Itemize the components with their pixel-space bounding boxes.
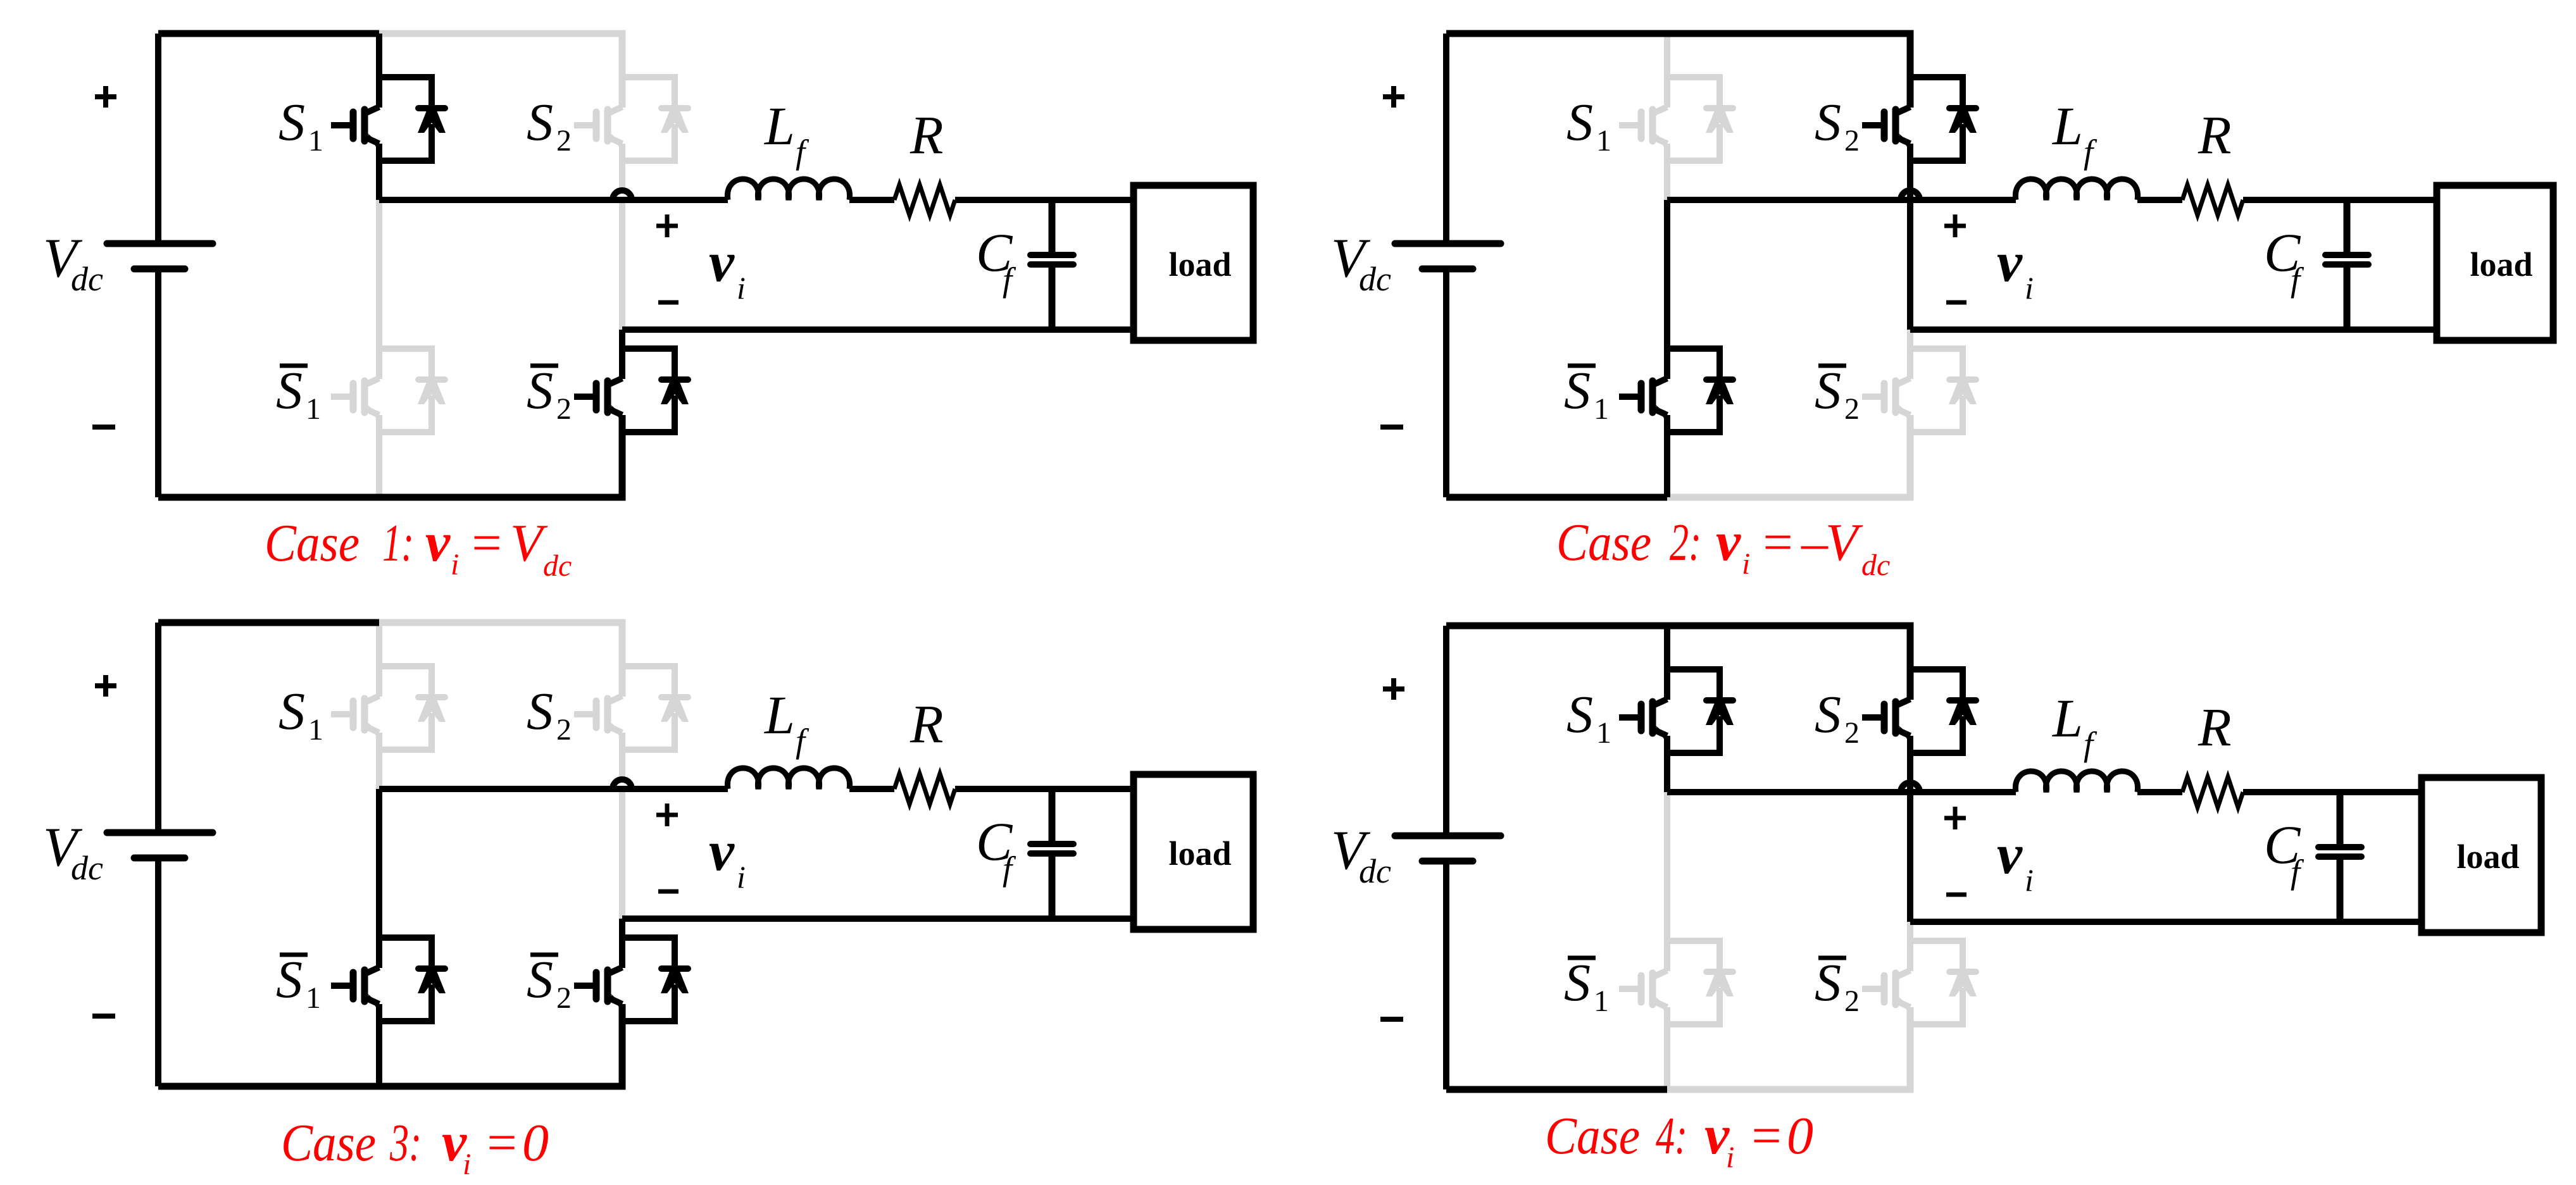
- wire: S2bar collector leg from node B: [1907, 330, 1913, 379]
- wire: S2bar emitter leg + bottom rail right segment: [1667, 415, 1910, 497]
- svg-text:i: i: [737, 270, 746, 306]
- diode (antiparallel of S1 case2): [1667, 77, 1734, 161]
- label + (vi positive): [656, 803, 678, 826]
- svg-text:S: S: [276, 361, 303, 420]
- wire: S2 emitter leg down to output node B: [1907, 736, 1913, 922]
- svg-text:load: load: [2470, 245, 2532, 283]
- transistor S1bar case1 (IGBT): [331, 378, 381, 418]
- wire hop (crossover): [1901, 190, 1920, 200]
- svg-text:i: i: [2025, 270, 2034, 306]
- svg-text:–: –: [1801, 513, 1829, 572]
- diode (antiparallel of S1 case4): [1667, 669, 1734, 753]
- svg-text:1: 1: [308, 124, 323, 158]
- circuit: Case 2 (top-right): [1331, 34, 2553, 497]
- wire: S1bar collector leg from node A: [1664, 792, 1670, 971]
- diode (antiparallel of S1bar case4): [1667, 941, 1734, 1024]
- wire: S1 emitter leg to output node A: [1664, 736, 1670, 792]
- wire: S2 emitter leg down to output node B: [619, 733, 625, 919]
- svg-text:S: S: [278, 93, 305, 152]
- svg-text:S: S: [1566, 685, 1593, 744]
- svg-text:S: S: [1815, 953, 1841, 1012]
- transistor S1 case4 (IGBT): [1619, 699, 1669, 739]
- svg-text:R: R: [910, 693, 944, 754]
- transistor S2bar case1 (IGBT): [574, 378, 624, 418]
- wire: S1 collector leg: [1664, 34, 1670, 108]
- svg-text:L: L: [2051, 688, 2083, 748]
- wire: top rail right segment + S2 collector leg: [379, 34, 622, 108]
- capacitor Cf: [1030, 789, 1073, 919]
- svg-text:S: S: [1564, 361, 1591, 420]
- caption Case 3: [281, 1112, 549, 1181]
- svg-text:R: R: [910, 104, 944, 165]
- label - (vi negative): [1946, 301, 1966, 305]
- load box: [2422, 778, 2541, 933]
- transistor S1 case2 (IGBT): [1619, 107, 1669, 147]
- svg-text:=: =: [468, 514, 504, 573]
- transistor S1 case1 (IGBT): [331, 107, 381, 147]
- svg-text:Case: Case: [281, 1114, 376, 1172]
- svg-text:i: i: [451, 548, 459, 581]
- label S2: [1815, 93, 1860, 158]
- wire: inductor to resistor: [849, 197, 894, 203]
- svg-text:dc: dc: [1359, 852, 1391, 890]
- inductor Lf: [2015, 771, 2137, 792]
- wire: resistor to load: [955, 197, 1134, 203]
- wire: top rail left segment: [158, 30, 379, 37]
- label vi: [1997, 231, 2034, 306]
- svg-text:f: f: [2084, 133, 2098, 171]
- circuit: Case 4 (bottom-right): [1331, 626, 2541, 1089]
- wire: top rail right segment + S2 collector leg: [379, 623, 622, 697]
- label Lf: [2051, 96, 2098, 171]
- wire: top rail left segment: [158, 619, 379, 626]
- wire: output node B to load (bottom): [1910, 326, 2437, 333]
- wire: S1 emitter leg to output node A: [376, 144, 382, 200]
- svg-text:f: f: [2084, 725, 2098, 763]
- svg-text:dc: dc: [1861, 549, 1890, 582]
- wire: S2bar emitter leg + bottom rail right segment: [379, 1004, 622, 1086]
- svg-text:v: v: [1997, 231, 2023, 294]
- label - (battery negative): [92, 425, 115, 430]
- wire: S1bar emitter leg to bottom rail: [1664, 1007, 1670, 1089]
- svg-text:i: i: [1726, 1141, 1734, 1174]
- svg-text:Case: Case: [265, 514, 360, 573]
- label + (battery positive): [1383, 678, 1404, 700]
- load box: [1134, 774, 1253, 929]
- svg-text:S: S: [527, 682, 553, 741]
- svg-text:i: i: [737, 859, 746, 895]
- svg-text:1: 1: [1594, 984, 1609, 1018]
- wire: top rail left segment: [1446, 30, 1667, 37]
- svg-text:=: =: [1748, 1107, 1784, 1165]
- circuit: Case 3 (bottom-left): [43, 623, 1253, 1086]
- label S̄1: [276, 950, 321, 1015]
- wire: S1bar emitter leg to bottom rail: [376, 1004, 382, 1086]
- label - (battery negative): [1380, 1017, 1403, 1022]
- svg-text:V: V: [510, 514, 548, 573]
- label vi: [709, 231, 746, 306]
- svg-text:v: v: [709, 231, 735, 294]
- diode (antiparallel of S1bar case1): [379, 349, 446, 432]
- svg-text:i: i: [463, 1148, 471, 1181]
- transistor S2 case4 (IGBT): [1862, 699, 1912, 739]
- diode (antiparallel of S1 case1): [379, 77, 446, 161]
- svg-text:dc: dc: [71, 260, 103, 298]
- transistor S1bar case3 (IGBT): [331, 967, 381, 1007]
- svg-text:v: v: [709, 820, 735, 883]
- wire: S2bar collector leg from node B: [619, 330, 625, 379]
- load box: [1134, 185, 1253, 340]
- wire: S1 emitter leg to output node A: [376, 733, 382, 789]
- resistor R: [2182, 185, 2243, 215]
- svg-text:Case: Case: [1556, 513, 1651, 572]
- battery Vdc: [107, 34, 213, 497]
- circuit: Case 1 (top-left): [43, 34, 1253, 497]
- label - (battery negative): [92, 1014, 115, 1019]
- svg-text:f: f: [796, 722, 810, 760]
- svg-text:v: v: [425, 512, 451, 573]
- transistor S2bar case2 (IGBT): [1862, 378, 1912, 418]
- caption Case 2: [1556, 511, 1890, 582]
- resistor R: [894, 185, 955, 215]
- label Vdc: [43, 228, 103, 298]
- svg-text:4:: 4:: [1656, 1107, 1687, 1165]
- label S1: [1566, 685, 1611, 750]
- capacitor Cf: [2318, 792, 2361, 922]
- wire: S2 emitter leg down to output node B: [619, 144, 625, 330]
- svg-text:2: 2: [1844, 716, 1860, 750]
- wire: inductor to resistor: [2137, 789, 2182, 795]
- wire: S2bar collector leg from node B: [1907, 922, 1913, 971]
- label S2: [527, 93, 572, 158]
- transistor S1bar case2 (IGBT): [1619, 378, 1669, 418]
- label - (vi negative): [658, 301, 678, 305]
- transistor S2bar case4 (IGBT): [1862, 971, 1912, 1010]
- inductor Lf: [727, 179, 849, 200]
- svg-text:=: =: [1760, 513, 1796, 572]
- label + (vi positive): [656, 214, 678, 237]
- svg-text:R: R: [2198, 697, 2232, 757]
- wire hop (crossover): [613, 779, 632, 789]
- transistor S2bar case3 (IGBT): [574, 967, 624, 1007]
- label Lf: [763, 685, 810, 760]
- label - (vi negative): [1946, 893, 1966, 897]
- wire: S2bar emitter leg + bottom rail right segment: [1667, 1007, 1910, 1089]
- wire: output node A to inductor: [1667, 197, 2016, 203]
- resistor R: [894, 774, 955, 804]
- wire: output node B to load (bottom): [622, 326, 1134, 333]
- transistor S1bar case4 (IGBT): [1619, 971, 1669, 1010]
- wire: S1bar collector leg from node A: [376, 789, 382, 968]
- svg-text:f: f: [1003, 850, 1016, 888]
- svg-text:S: S: [1815, 93, 1841, 152]
- wire: output node A to inductor: [1667, 789, 2016, 795]
- label vi: [709, 820, 746, 895]
- label Cf: [2264, 814, 2304, 891]
- label S1: [1566, 93, 1611, 158]
- battery Vdc: [107, 623, 213, 1086]
- diode (antiparallel of S2bar case4): [1910, 941, 1977, 1024]
- diode (antiparallel of S1bar case3): [379, 938, 446, 1021]
- diode (antiparallel of S2 case2): [1910, 77, 1977, 161]
- svg-text:1: 1: [306, 392, 321, 426]
- wire: output node A to inductor: [379, 786, 728, 792]
- svg-text:Case: Case: [1545, 1107, 1640, 1165]
- wire: S2bar emitter leg + bottom rail right segment: [379, 415, 622, 497]
- caption Case 1: [265, 512, 572, 583]
- label vi: [1997, 823, 2034, 898]
- diode (antiparallel of S2bar case2): [1910, 349, 1977, 432]
- label - (vi negative): [658, 890, 678, 894]
- svg-text:2: 2: [556, 392, 572, 426]
- label S̄2: [527, 950, 572, 1015]
- capacitor Cf: [1030, 200, 1073, 330]
- label S̄2: [1815, 361, 1860, 426]
- transistor S1 case3 (IGBT): [331, 696, 381, 736]
- wire: S1 collector leg: [376, 34, 382, 108]
- wire: top rail left segment: [1446, 623, 1667, 630]
- svg-text:dc: dc: [1359, 260, 1391, 298]
- label + (battery positive): [1383, 86, 1404, 108]
- wire: bottom rail left segment: [1446, 1086, 1667, 1093]
- svg-text:load: load: [1168, 245, 1231, 283]
- diode (antiparallel of S2 case1): [622, 77, 689, 161]
- diode (antiparallel of S2bar case3): [622, 938, 689, 1021]
- svg-text:i: i: [2025, 862, 2034, 898]
- svg-text:f: f: [2291, 261, 2304, 299]
- svg-text:1: 1: [1594, 392, 1609, 426]
- label + (vi positive): [1944, 807, 1966, 829]
- label Cf: [976, 811, 1016, 888]
- svg-text:2: 2: [1844, 124, 1860, 158]
- svg-text:0: 0: [522, 1114, 549, 1172]
- wire: S1bar collector leg from node A: [1664, 200, 1670, 379]
- svg-text:0: 0: [1787, 1107, 1813, 1165]
- svg-text:S: S: [1566, 93, 1593, 152]
- svg-text:2: 2: [1844, 392, 1860, 426]
- svg-text:S: S: [276, 950, 303, 1009]
- label Vdc: [1331, 228, 1391, 298]
- svg-text:v: v: [1997, 823, 2023, 886]
- svg-text:S: S: [278, 682, 305, 741]
- wire: output node A to inductor: [379, 197, 728, 203]
- wire: bottom rail left segment: [1446, 494, 1667, 501]
- svg-text:load: load: [1168, 834, 1231, 872]
- svg-text:1: 1: [308, 713, 323, 747]
- wire hop (crossover): [613, 190, 632, 200]
- svg-text:S: S: [1815, 361, 1841, 420]
- svg-text:2: 2: [556, 981, 572, 1015]
- battery Vdc: [1395, 34, 1501, 497]
- diode (antiparallel of S1 case3): [379, 666, 446, 750]
- label S̄1: [1564, 361, 1609, 426]
- label S̄2: [527, 361, 572, 426]
- svg-text:L: L: [763, 96, 795, 156]
- label S̄2: [1815, 953, 1860, 1018]
- wire: bottom rail left segment: [158, 494, 379, 501]
- label Lf: [763, 96, 810, 171]
- wire: S2 emitter leg down to output node B: [1907, 144, 1913, 330]
- svg-text:v: v: [1716, 511, 1741, 573]
- label S̄1: [1564, 953, 1609, 1018]
- wire: S1 emitter leg to output node A: [1664, 144, 1670, 200]
- caption Case 4: [1545, 1105, 1813, 1174]
- diode (antiparallel of S2 case4): [1910, 669, 1977, 753]
- wire: output node B to load (bottom): [1910, 919, 2422, 925]
- label S̄1: [276, 361, 321, 426]
- svg-text:=: =: [484, 1114, 520, 1172]
- svg-text:f: f: [796, 133, 810, 171]
- svg-text:S: S: [527, 93, 553, 152]
- label + (battery positive): [95, 86, 116, 108]
- svg-text:2: 2: [556, 124, 572, 158]
- label Cf: [2264, 222, 2304, 299]
- label + (battery positive): [95, 675, 116, 697]
- wire: resistor to load: [955, 786, 1134, 792]
- label S2: [527, 682, 572, 747]
- wire: resistor to load: [2243, 197, 2437, 203]
- transistor S2 case1 (IGBT): [574, 107, 624, 147]
- wire: top rail right segment + S2 collector leg: [1667, 34, 1910, 108]
- svg-text:2:: 2:: [1670, 513, 1701, 572]
- svg-text:1:: 1:: [382, 514, 414, 573]
- svg-text:S: S: [527, 361, 553, 420]
- svg-text:2: 2: [1844, 984, 1860, 1018]
- svg-text:i: i: [1742, 547, 1750, 581]
- battery Vdc: [1395, 626, 1501, 1089]
- svg-text:L: L: [2051, 96, 2083, 156]
- svg-text:1: 1: [306, 981, 321, 1015]
- wire: inductor to resistor: [849, 786, 894, 792]
- svg-text:2: 2: [556, 713, 572, 747]
- svg-text:R: R: [2198, 104, 2232, 165]
- wire: output node B to load (bottom): [622, 915, 1134, 922]
- svg-text:V: V: [1825, 513, 1863, 572]
- wire: S1bar emitter leg to bottom rail: [1664, 415, 1670, 497]
- svg-text:L: L: [763, 685, 795, 745]
- wire: resistor to load: [2243, 789, 2422, 795]
- load box: [2437, 185, 2553, 340]
- svg-text:1: 1: [1596, 716, 1611, 750]
- label S2: [1815, 685, 1860, 750]
- wire: S1 collector leg: [376, 623, 382, 697]
- svg-text:3:: 3:: [389, 1114, 422, 1172]
- wire: S1 collector leg: [1664, 626, 1670, 700]
- diode (antiparallel of S2 case3): [622, 666, 689, 750]
- wire: S1bar emitter leg to bottom rail: [376, 415, 382, 497]
- label Vdc: [43, 817, 103, 887]
- label S1: [278, 682, 323, 747]
- wire: S1bar collector leg from node A: [376, 200, 382, 379]
- svg-text:1: 1: [1596, 124, 1611, 158]
- diode (antiparallel of S1bar case2): [1667, 349, 1734, 432]
- svg-text:S: S: [527, 950, 553, 1009]
- label + (vi positive): [1944, 214, 1966, 237]
- label Lf: [2051, 688, 2098, 763]
- transistor S2 case3 (IGBT): [574, 696, 624, 736]
- wire: inductor to resistor: [2137, 197, 2182, 203]
- svg-text:S: S: [1815, 685, 1841, 744]
- svg-text:dc: dc: [543, 549, 572, 583]
- svg-text:f: f: [1003, 261, 1016, 299]
- wire: bottom rail left segment: [158, 1083, 379, 1090]
- wire hop (crossover): [1901, 783, 1920, 792]
- label - (battery negative): [1380, 425, 1403, 430]
- wire: S2bar collector leg from node B: [619, 919, 625, 968]
- inductor Lf: [727, 768, 849, 789]
- svg-text:dc: dc: [71, 849, 103, 887]
- svg-text:f: f: [2291, 853, 2304, 891]
- label S1: [278, 93, 323, 158]
- capacitor Cf: [2325, 200, 2368, 330]
- svg-text:load: load: [2456, 838, 2519, 876]
- svg-text:S: S: [1564, 953, 1591, 1012]
- resistor R: [2182, 777, 2243, 807]
- diode (antiparallel of S2bar case1): [622, 349, 689, 432]
- label Cf: [976, 222, 1016, 299]
- inductor Lf: [2015, 179, 2137, 200]
- wire: top rail right segment + S2 collector leg: [1667, 626, 1910, 700]
- label Vdc: [1331, 820, 1391, 890]
- transistor S2 case2 (IGBT): [1862, 107, 1912, 147]
